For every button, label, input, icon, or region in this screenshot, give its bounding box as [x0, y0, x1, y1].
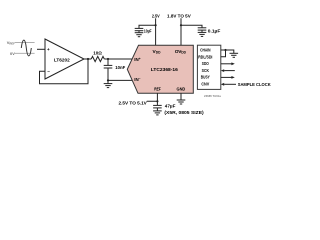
digital pin box — [197, 45, 220, 89]
wire BUSY output arrow — [221, 76, 232, 78]
ground — [104, 84, 113, 88]
ground — [135, 33, 144, 37]
op-amp U1 LT6202 — [45, 39, 84, 79]
svg-text:GND: GND — [177, 86, 186, 92]
svg-text:−: − — [47, 69, 50, 74]
svg-text:SDO: SDO — [202, 61, 209, 67]
node CHAIN junction — [224, 49, 226, 51]
wire resistor to node — [104, 58, 132, 60]
svg-text:47µF: 47µF — [165, 103, 176, 108]
svg-text:REF: REF — [154, 86, 161, 92]
svg-text:23685 TA01a: 23685 TA01a — [204, 94, 221, 98]
svg-text:10Ω: 10Ω — [93, 50, 102, 55]
svg-text:1.8V TO 5V: 1.8V TO 5V — [167, 13, 191, 19]
ground — [177, 100, 186, 104]
wire VDD supply — [155, 18, 157, 45]
wire to 10uF cap — [139, 25, 156, 28]
svg-text:(X5R, 0805 SIZE): (X5R, 0805 SIZE) — [164, 110, 204, 115]
ground — [198, 32, 207, 36]
wire CNV input arrow — [224, 83, 236, 85]
wire IN- to ADC — [108, 79, 132, 81]
wire SCK input arrow — [224, 70, 235, 72]
svg-text:LT6202: LT6202 — [54, 58, 70, 63]
node OVDD bypass junction — [180, 24, 182, 26]
svg-text:CNV: CNV — [201, 82, 210, 88]
wire node to cap — [107, 59, 109, 65]
wire CHAIN to ground — [221, 50, 234, 53]
ground — [153, 111, 162, 115]
wire REF to cap — [156, 101, 158, 105]
capacitor C 47uF — [153, 105, 162, 111]
svg-text:0.1µF: 0.1µF — [208, 29, 221, 34]
wire feedback loop — [40, 59, 89, 84]
svg-text:2.5V TO 5.1V: 2.5V TO 5.1V — [119, 101, 148, 107]
wire GND pin — [180, 93, 182, 100]
node REF junction — [156, 100, 158, 102]
node VDD bypass junction — [155, 24, 157, 26]
node IN- junction — [107, 79, 109, 81]
ground — [230, 53, 239, 57]
svg-text:+: + — [47, 47, 50, 52]
svg-text:10µF: 10µF — [144, 29, 152, 34]
svg-text:SAMPLE CLOCK: SAMPLE CLOCK — [238, 82, 271, 88]
capacitor C 0.1uF — [198, 28, 207, 33]
svg-text:CHAIN: CHAIN — [200, 48, 211, 54]
node RC junction — [107, 58, 109, 60]
node feedback junction — [87, 58, 89, 60]
svg-text:VDD: VDD — [153, 49, 162, 55]
svg-text:2.5V: 2.5V — [152, 13, 161, 19]
svg-text:BUSY: BUSY — [201, 75, 211, 81]
resistor R 10Ohm — [91, 56, 104, 61]
svg-text:SCK: SCK — [202, 68, 210, 74]
wire to 0.1uF cap — [181, 25, 202, 28]
svg-text:VREF: VREF — [7, 40, 16, 46]
wire op-amp output — [84, 58, 91, 60]
svg-text:0V: 0V — [10, 51, 15, 56]
wire SDO output arrow — [221, 63, 232, 65]
ADC U2 LTC2368-16 — [127, 45, 193, 93]
svg-text:RDL/SDI: RDL/SDI — [198, 55, 213, 61]
wire OVDD supply — [180, 18, 182, 45]
input sine wave source — [21, 40, 31, 56]
node 0V level line — [15, 52, 35, 54]
capacitor C 10nF — [104, 65, 113, 80]
wire REF pin — [147, 93, 158, 101]
svg-text:LTC2368-16: LTC2368-16 — [151, 67, 178, 73]
svg-text:10nF: 10nF — [115, 65, 125, 70]
wire cap to ground — [107, 80, 109, 83]
wire input to op-amp — [37, 48, 45, 50]
svg-text:OVDD: OVDD — [175, 49, 187, 55]
capacitor C 10uF — [135, 28, 144, 32]
node VREF level line — [15, 42, 35, 44]
wire RDL/SDI tie — [221, 50, 226, 57]
